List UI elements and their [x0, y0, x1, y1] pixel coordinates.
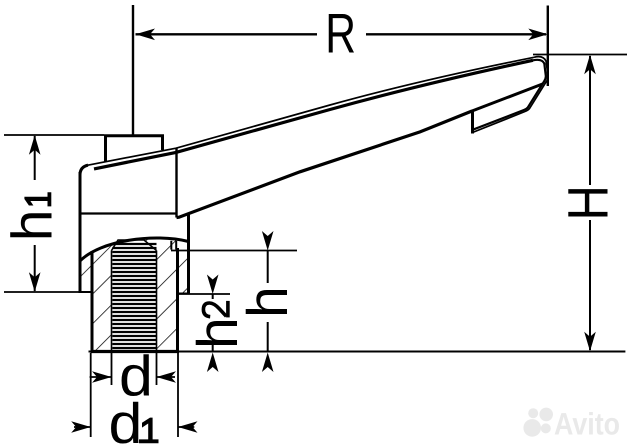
label H (rotated) — [557, 185, 621, 220]
centerline — [132, 5, 134, 135]
label d — [119, 345, 153, 409]
junction vertical line — [175, 149, 177, 218]
h2 bottom arrow — [207, 353, 219, 373]
bottom reference line — [89, 351, 626, 353]
cap on hub — [104, 135, 164, 163]
hub bushing outline — [91, 248, 180, 352]
svg-text:Avito: Avito — [554, 407, 620, 442]
label d1 subscript — [139, 418, 159, 444]
label d1 — [109, 392, 143, 448]
svg-text:h: h — [236, 286, 300, 318]
h1 bottom arrow — [29, 272, 41, 292]
d1 left arrow — [71, 421, 91, 433]
thread hole edges — [112, 240, 157, 352]
H bottom arrow — [584, 332, 596, 352]
svg-text:d: d — [109, 392, 143, 448]
tip outer thin — [473, 57, 549, 133]
R right extension line — [547, 6, 549, 87]
left edge + rounded corner — [80, 165, 88, 213]
thread stripes — [112, 244, 156, 348]
serration ticks — [170, 241, 172, 250]
dimension d — [90, 353, 175, 385]
h2 top arrow — [207, 275, 219, 295]
d1 right arrow — [178, 421, 198, 433]
H top arrow — [584, 55, 596, 74]
threaded hole (white) — [112, 240, 157, 352]
dimension R line — [136, 33, 547, 35]
h1 top arrow — [29, 135, 41, 155]
recess left wall — [471, 110, 474, 134]
label h1 (rotated) — [0, 192, 64, 241]
dome arc (hub top) — [80, 238, 189, 262]
handle arm outline — [80, 57, 548, 218]
arm bottom silhouette — [177, 111, 473, 218]
d left arrow — [92, 371, 112, 383]
thin top silhouette — [87, 57, 535, 165]
h bottom arrow — [262, 353, 274, 373]
dimension H — [533, 54, 627, 56]
tip inner thick — [473, 60, 546, 130]
R right arrow — [528, 29, 548, 41]
d right arrow — [157, 371, 177, 383]
label R — [325, 1, 356, 64]
dimension h1 — [4, 134, 104, 136]
svg-text:h: h — [0, 210, 64, 242]
dimension h2 — [178, 293, 230, 295]
hatched section area (hub cross-section) — [80, 238, 189, 352]
svg-text:H: H — [557, 185, 621, 220]
svg-text:h: h — [186, 317, 250, 349]
label h (rotated) — [236, 286, 300, 318]
R left arrow — [136, 29, 156, 41]
svg-text:R: R — [325, 1, 356, 64]
watermark avito logo — [523, 407, 620, 442]
dimension h — [171, 250, 297, 252]
label h2 (rotated) — [186, 301, 250, 349]
recess far rim — [472, 84, 543, 111]
dimension d1 — [74, 353, 194, 437]
h top arrow — [262, 231, 274, 251]
boss outline — [79, 172, 191, 294]
thick line below top edge — [94, 60, 533, 169]
